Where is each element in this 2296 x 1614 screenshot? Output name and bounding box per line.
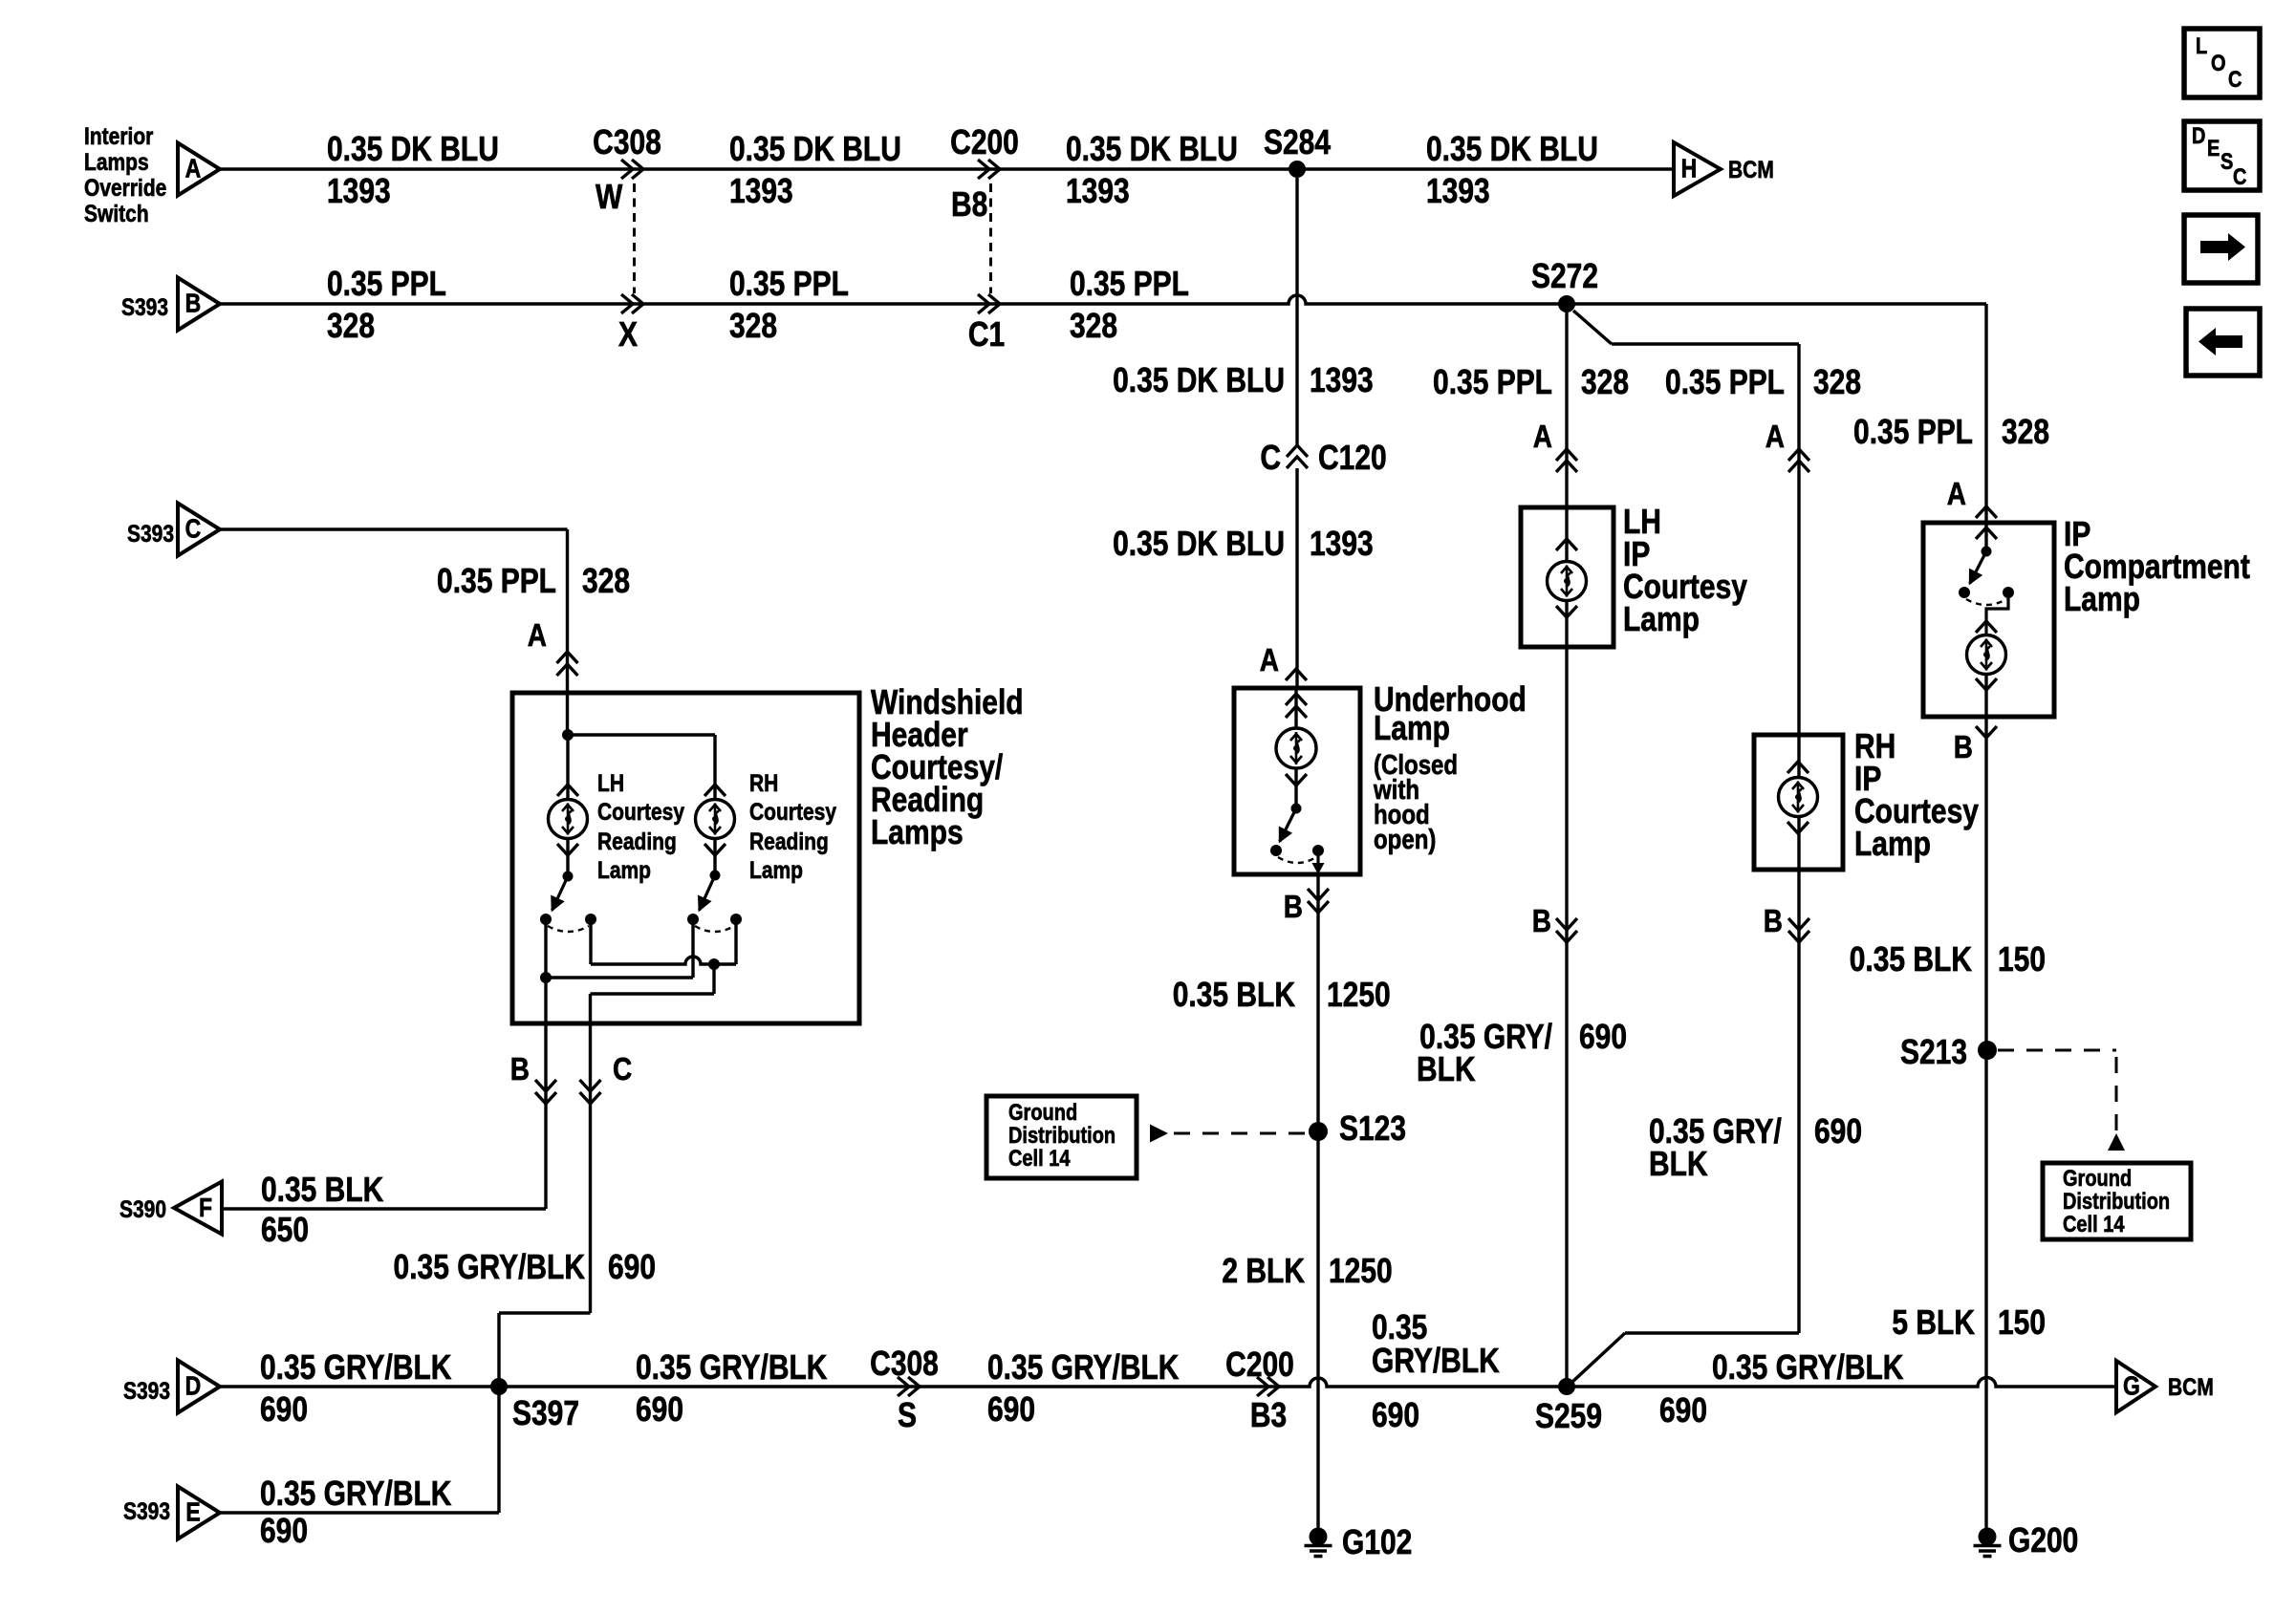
wire S272 to LH IP lamp xyxy=(1565,304,1568,561)
svg-text:Lamps: Lamps xyxy=(871,813,964,851)
svg-text:0.35 PPL: 0.35 PPL xyxy=(327,265,446,303)
RH courtesy reading lamp xyxy=(696,800,735,839)
svg-text:O: O xyxy=(2211,50,2226,75)
RH IP lamp exit xyxy=(1787,822,1809,833)
underhood lamp xyxy=(1276,728,1316,768)
dashed link to S123 xyxy=(1150,1125,1168,1143)
RH IP lamp xyxy=(1779,778,1818,817)
svg-text:0.35 PPL: 0.35 PPL xyxy=(729,265,849,303)
LH switch contacts xyxy=(540,914,552,925)
svg-text:690: 690 xyxy=(1659,1391,1707,1430)
svg-text:LH: LH xyxy=(597,769,624,796)
svg-text:690: 690 xyxy=(608,1248,656,1286)
wire W1 DK BLU (A to H) xyxy=(220,167,1674,170)
svg-text:S397: S397 xyxy=(512,1394,579,1432)
svg-text:Lamp: Lamp xyxy=(749,856,803,883)
underhood lamp lower wire xyxy=(1294,768,1297,808)
legend box LOC xyxy=(2184,29,2260,97)
svg-text:0.35 PPL: 0.35 PPL xyxy=(1665,363,1785,401)
svg-text:690: 690 xyxy=(1814,1112,1862,1151)
svg-text:Switch: Switch xyxy=(84,200,149,226)
windshield header lamps box xyxy=(512,693,859,1023)
wire branch down to RH IP lamp xyxy=(1797,344,1800,777)
wire RH IP B down xyxy=(1797,817,1800,1333)
svg-text:G102: G102 xyxy=(1342,1523,1412,1561)
svg-text:Lamp: Lamp xyxy=(1374,709,1450,747)
svg-text:690: 690 xyxy=(987,1390,1035,1429)
legend box left-arrow xyxy=(2186,309,2260,376)
svg-text:1393: 1393 xyxy=(327,172,391,210)
svg-text:B: B xyxy=(1532,903,1551,939)
underhood switch contacts xyxy=(1270,845,1282,856)
svg-text:0.35 BLK: 0.35 BLK xyxy=(261,1171,383,1209)
wire C to S397 xyxy=(499,1311,591,1314)
wire F 0.35 BLK 650 xyxy=(222,1207,546,1210)
connector C308 on W2 xyxy=(621,294,633,313)
wire S284 down to C120 xyxy=(1295,178,1298,445)
svg-text:328: 328 xyxy=(1070,307,1117,345)
svg-text:150: 150 xyxy=(1998,1303,2046,1342)
svg-text:A: A xyxy=(185,155,202,183)
svg-text:328: 328 xyxy=(1581,363,1629,401)
wire E xyxy=(220,1511,499,1514)
svg-text:B: B xyxy=(1284,889,1303,925)
svg-text:D: D xyxy=(185,1372,202,1401)
RH lamp to switch xyxy=(713,839,716,875)
RH switch pivot xyxy=(710,871,721,881)
splice S272 xyxy=(1558,295,1575,312)
connector triangle H to BCM xyxy=(1674,142,1721,196)
svg-text:C308: C308 xyxy=(593,123,661,161)
svg-text:0.35 PPL: 0.35 PPL xyxy=(1433,363,1552,401)
RH switch arc xyxy=(695,926,734,932)
svg-text:G: G xyxy=(2123,1372,2140,1401)
svg-text:C120: C120 xyxy=(1318,439,1387,477)
splice S259 xyxy=(1558,1378,1575,1395)
underhood switch arc xyxy=(1278,857,1316,863)
svg-text:2 BLK: 2 BLK xyxy=(1222,1252,1305,1290)
svg-text:Reading: Reading xyxy=(749,828,829,854)
svg-text:B: B xyxy=(185,290,202,318)
IP switch pivot xyxy=(1982,547,1992,557)
windshield entry wire xyxy=(566,688,569,735)
IP lamp xyxy=(1967,635,2006,675)
svg-text:BLK: BLK xyxy=(1649,1145,1708,1183)
IP switch link xyxy=(1986,592,2008,635)
svg-text:1393: 1393 xyxy=(1310,361,1374,399)
svg-text:1393: 1393 xyxy=(1426,172,1490,210)
svg-text:S259: S259 xyxy=(1535,1397,1602,1435)
svg-text:0.35 DK BLU: 0.35 DK BLU xyxy=(1066,130,1238,168)
svg-text:C: C xyxy=(613,1051,632,1087)
svg-text:D: D xyxy=(2192,122,2205,148)
connector triangle E xyxy=(178,1487,220,1539)
IP compartment lamp box xyxy=(1923,523,2054,717)
LH courtesy lamp branch xyxy=(566,735,569,799)
svg-text:W: W xyxy=(596,178,623,216)
svg-text:690: 690 xyxy=(1372,1396,1419,1434)
svg-text:0.35 BLK: 0.35 BLK xyxy=(1173,976,1295,1014)
connector triangle F xyxy=(174,1182,222,1235)
splice S123 xyxy=(1309,1122,1328,1141)
svg-text:C200: C200 xyxy=(950,123,1019,161)
windshield feed rail xyxy=(568,733,715,736)
svg-text:H: H xyxy=(1681,155,1698,183)
LH switch arc xyxy=(548,926,589,932)
svg-text:Lamps: Lamps xyxy=(84,148,149,175)
connector C200 on W2 xyxy=(978,294,989,313)
wire D bus xyxy=(220,1378,2116,1388)
junction on cross link xyxy=(708,958,720,970)
svg-text:Interior: Interior xyxy=(84,122,153,149)
splice S284 xyxy=(1289,161,1306,178)
connector triangle G to BCM xyxy=(2116,1361,2155,1412)
IP switch arc xyxy=(1966,599,2006,605)
svg-text:A: A xyxy=(1533,419,1552,455)
svg-text:S393: S393 xyxy=(127,520,174,547)
svg-text:0.35 DK BLU: 0.35 DK BLU xyxy=(327,130,499,168)
wire C branch xyxy=(220,527,568,530)
svg-text:690: 690 xyxy=(260,1390,308,1429)
svg-text:GRY/BLK: GRY/BLK xyxy=(1372,1342,1500,1380)
svg-text:C308: C308 xyxy=(870,1345,939,1383)
legend box right-arrow xyxy=(2184,215,2258,283)
svg-text:Lamp: Lamp xyxy=(1623,600,1700,638)
junction on B line xyxy=(540,972,552,983)
svg-text:1250: 1250 xyxy=(1329,1252,1393,1290)
svg-text:X: X xyxy=(618,315,638,354)
svg-text:A: A xyxy=(1765,419,1785,455)
svg-text:0.35 PPL: 0.35 PPL xyxy=(1853,413,1973,451)
ground distribution callout left box xyxy=(986,1096,1137,1178)
svg-text:G200: G200 xyxy=(2008,1521,2078,1560)
wire S272 diagonal branch xyxy=(1573,311,1612,344)
svg-text:0.35 GRY/BLK: 0.35 GRY/BLK xyxy=(260,1348,452,1387)
underhood switch pivot xyxy=(1291,804,1302,814)
svg-text:S213: S213 xyxy=(1900,1033,1967,1071)
wire IP B down to G200 xyxy=(1984,675,1987,1530)
svg-text:0.35 DK BLU: 0.35 DK BLU xyxy=(1113,361,1285,399)
S213 dashed link xyxy=(1998,1049,2116,1052)
ground G102 xyxy=(1310,1528,1328,1546)
legend box DESC xyxy=(2184,121,2260,190)
wire LH right contact cross link xyxy=(589,919,592,964)
svg-text:S272: S272 xyxy=(1531,257,1598,295)
svg-text:1250: 1250 xyxy=(1327,976,1391,1014)
svg-text:B: B xyxy=(510,1051,530,1087)
svg-text:Lamp: Lamp xyxy=(2064,580,2140,618)
svg-text:L: L xyxy=(2196,32,2207,58)
svg-text:0.35 GRY/BLK: 0.35 GRY/BLK xyxy=(260,1474,452,1513)
splice S213 xyxy=(1978,1041,1997,1060)
connector triangle C xyxy=(178,504,220,556)
svg-text:328: 328 xyxy=(582,562,630,600)
svg-text:0.35 PPL: 0.35 PPL xyxy=(437,562,556,600)
IP switch blade xyxy=(1970,551,1986,584)
svg-text:C: C xyxy=(2228,66,2242,92)
svg-text:S: S xyxy=(898,1396,917,1434)
svg-text:0.35 GRY/BLK: 0.35 GRY/BLK xyxy=(1712,1348,1904,1387)
svg-text:BCM: BCM xyxy=(2168,1373,2214,1400)
svg-text:Cell 14: Cell 14 xyxy=(2063,1211,2125,1237)
svg-text:C: C xyxy=(2233,163,2247,189)
svg-text:Lamp: Lamp xyxy=(597,856,651,883)
IP lamp entry chevron xyxy=(1976,527,1997,539)
svg-text:A: A xyxy=(1260,642,1279,678)
svg-text:C: C xyxy=(185,515,202,544)
svg-text:0.35 BLK: 0.35 BLK xyxy=(1850,940,1972,979)
wire LH IP B down to S259 xyxy=(1565,601,1568,1387)
wire C120 to underhood xyxy=(1295,468,1298,688)
svg-text:B3: B3 xyxy=(1250,1396,1287,1434)
svg-text:690: 690 xyxy=(1579,1018,1627,1056)
svg-text:Lamp: Lamp xyxy=(1854,825,1931,863)
connector triangle D xyxy=(178,1361,220,1413)
ground G200 xyxy=(1979,1528,1997,1546)
svg-text:150: 150 xyxy=(1998,940,2046,979)
RH courtesy lamp branch xyxy=(713,735,716,799)
C308 dashed link xyxy=(633,183,636,293)
svg-text:C: C xyxy=(1260,439,1281,477)
RH IP lamp entry chevron xyxy=(1787,762,1809,773)
svg-text:328: 328 xyxy=(729,307,777,345)
IP lamp exit xyxy=(1976,678,1997,690)
LH IP lamp entry chevron xyxy=(1556,539,1577,550)
svg-text:Reading: Reading xyxy=(597,828,677,854)
connector triangle A (Interior Lamps Override Switch) xyxy=(178,143,220,196)
LH IP lamp xyxy=(1548,562,1587,601)
wire W2 PPL xyxy=(220,295,1986,304)
svg-text:BCM: BCM xyxy=(1728,156,1774,183)
LH switch blade xyxy=(552,876,568,911)
svg-text:BLK: BLK xyxy=(1417,1050,1476,1088)
svg-text:B: B xyxy=(1764,903,1783,939)
wire underhood B to G102 xyxy=(1316,874,1319,1530)
svg-text:650: 650 xyxy=(261,1211,309,1249)
svg-text:690: 690 xyxy=(260,1512,308,1550)
splice S397 xyxy=(490,1378,508,1395)
svg-text:S284: S284 xyxy=(1264,123,1332,161)
svg-text:S393: S393 xyxy=(123,1377,170,1404)
svg-text:Courtesy: Courtesy xyxy=(597,798,684,825)
svg-text:0.35 GRY/BLK: 0.35 GRY/BLK xyxy=(636,1348,828,1387)
C200 dashed link xyxy=(989,183,992,293)
svg-text:F: F xyxy=(199,1194,212,1222)
svg-text:E: E xyxy=(2207,135,2220,161)
LH lamp to switch xyxy=(566,839,569,876)
IP switch contacts xyxy=(1959,587,1970,598)
underhood switch blade xyxy=(1280,808,1296,842)
wire W2 right end down xyxy=(1984,304,1987,551)
svg-text:A: A xyxy=(1947,476,1966,512)
svg-text:328: 328 xyxy=(1813,363,1861,401)
LH courtesy reading lamp xyxy=(549,800,588,839)
svg-text:A: A xyxy=(528,617,547,654)
svg-text:E: E xyxy=(185,1498,200,1527)
svg-text:0.35 GRY/BLK: 0.35 GRY/BLK xyxy=(394,1248,586,1286)
LH IP courtesy lamp box xyxy=(1521,507,1614,647)
svg-text:0.35 PPL: 0.35 PPL xyxy=(1070,265,1189,303)
svg-text:1393: 1393 xyxy=(1310,525,1374,563)
svg-text:1393: 1393 xyxy=(729,172,793,210)
RH switch blade xyxy=(699,875,715,911)
svg-text:Courtesy: Courtesy xyxy=(749,798,836,825)
svg-text:S393: S393 xyxy=(123,1497,170,1524)
svg-text:0.35 DK BLU: 0.35 DK BLU xyxy=(729,130,901,168)
wire C out of box xyxy=(712,964,715,994)
svg-text:690: 690 xyxy=(636,1390,683,1429)
svg-text:S123: S123 xyxy=(1339,1109,1406,1148)
wire RH left contact down-left xyxy=(691,919,694,978)
connector triangle B xyxy=(178,278,220,331)
svg-text:0.35 DK BLU: 0.35 DK BLU xyxy=(1426,130,1598,168)
LH IP lamp exit xyxy=(1556,606,1577,617)
underhood output arrow xyxy=(1316,850,1319,868)
windshield feed node xyxy=(562,729,574,741)
svg-text:5 BLK: 5 BLK xyxy=(1892,1303,1975,1342)
RH switch contacts xyxy=(687,914,699,925)
svg-text:open): open) xyxy=(1374,824,1436,854)
connector C120 xyxy=(1287,445,1308,457)
svg-text:S393: S393 xyxy=(121,293,168,320)
underhood lamp box xyxy=(1234,688,1360,874)
svg-text:328: 328 xyxy=(327,307,375,345)
svg-text:B8: B8 xyxy=(951,185,987,224)
svg-text:C1: C1 xyxy=(968,315,1005,354)
svg-text:Override: Override xyxy=(84,174,166,201)
svg-text:B: B xyxy=(1954,729,1973,765)
svg-text:S390: S390 xyxy=(119,1195,166,1222)
underhood entry wire xyxy=(1294,688,1297,728)
svg-text:0.35 GRY/BLK: 0.35 GRY/BLK xyxy=(987,1348,1180,1387)
svg-text:0.35 DK BLU: 0.35 DK BLU xyxy=(1113,525,1285,563)
LH switch pivot xyxy=(563,872,574,882)
svg-text:1393: 1393 xyxy=(1066,172,1130,210)
svg-text:RH: RH xyxy=(749,769,778,796)
ground distribution callout right box xyxy=(2043,1163,2191,1239)
svg-text:328: 328 xyxy=(2002,413,2049,451)
wire LH left contact down (B out) xyxy=(544,919,547,1209)
RH IP courtesy lamp box xyxy=(1754,735,1843,870)
svg-text:S: S xyxy=(2220,148,2233,174)
svg-text:Cell 14: Cell 14 xyxy=(1008,1145,1071,1171)
